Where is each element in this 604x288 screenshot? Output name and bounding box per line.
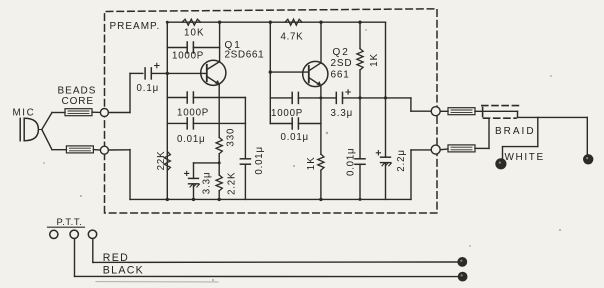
label 3.3u vertical stage1 xyxy=(201,172,212,195)
wire black drop xyxy=(74,239,76,277)
label 2.2u vertical xyxy=(396,149,407,172)
wire bend up to C1 xyxy=(129,73,131,112)
label Q1 xyxy=(225,40,242,51)
plus mark 0.1u xyxy=(155,63,159,67)
svg-text:0.1μ: 0.1μ xyxy=(137,83,160,94)
junction 1K/gnd xyxy=(319,198,322,201)
supply rail top xyxy=(167,21,385,23)
resistor R3 4.7K xyxy=(285,19,302,25)
wire 330/2.2K tap to 3.3u xyxy=(194,162,220,164)
wire red drop xyxy=(92,239,94,263)
node input gnd (on box edge) xyxy=(100,146,108,154)
wire Q2 emitter down xyxy=(320,86,322,155)
microphone MIC symbol xyxy=(20,118,42,140)
label 0.1u xyxy=(137,83,160,94)
wire node to core upper xyxy=(440,110,448,112)
terminal lug red xyxy=(458,258,466,266)
wire core to input gnd node xyxy=(93,149,100,151)
wire cap line1 stage2 xyxy=(270,97,321,99)
wire plug drop right xyxy=(586,117,588,154)
svg-text:3.3μ: 3.3μ xyxy=(201,172,212,195)
wire 2.2K to ground rail xyxy=(218,191,220,200)
label WHITE xyxy=(505,152,545,163)
label 1000P stage1 xyxy=(177,108,209,119)
terminal lug black xyxy=(459,273,467,281)
wire bias vertical stage1 xyxy=(166,22,168,199)
svg-text:2SD: 2SD xyxy=(331,58,353,69)
junction 2.2K/gnd xyxy=(218,198,221,201)
ptt contact 1 xyxy=(50,230,58,238)
label 0.01u stage2 xyxy=(281,132,309,143)
wire Q2 base line xyxy=(270,71,309,73)
ptt contact 2 xyxy=(70,230,78,238)
wire 1K to gnd xyxy=(320,170,322,199)
wire white drop xyxy=(502,147,504,159)
capacitor C4 0.01u stage1 xyxy=(187,118,193,129)
wire 2.2u top lead xyxy=(385,22,387,157)
svg-text:3.3μ: 3.3μ xyxy=(331,108,354,119)
wire core to braid rise xyxy=(475,147,489,149)
wire core to shield entry xyxy=(475,110,518,112)
wire 2.2u bottom lead xyxy=(385,163,387,199)
junction outline/1K xyxy=(358,96,361,99)
svg-text:0.01μ: 0.01μ xyxy=(281,132,309,143)
scan speckles xyxy=(43,29,561,281)
junction 3.3u/gnd xyxy=(192,198,195,201)
plus mark 3.3u stage1 xyxy=(185,171,189,175)
wire 0.01u to gnd xyxy=(359,164,361,199)
junction base2 xyxy=(269,70,272,73)
svg-text:RED: RED xyxy=(103,252,129,264)
svg-text:0.01μ: 0.01μ xyxy=(177,134,205,145)
wire node to core lower xyxy=(440,148,448,151)
label PREAMP. xyxy=(110,21,161,32)
beads core L3 (output hot) xyxy=(448,108,475,115)
capacitor C2 1000P feedback xyxy=(187,42,193,53)
wire mic lower run xyxy=(52,149,66,151)
label 1000P (feedback) xyxy=(172,51,204,62)
capacitor C8 0.01u stage2 xyxy=(292,118,298,129)
junction rail/bias2 xyxy=(269,21,272,24)
transistor Q1 2SD661 xyxy=(201,60,226,85)
label MIC xyxy=(13,108,36,119)
wire 1K to output junction xyxy=(359,70,361,159)
wire 3.3u top lead xyxy=(193,163,195,179)
wire long run to plug xyxy=(518,116,588,118)
transistor Q2 2SD661 xyxy=(303,61,328,86)
wire mic fork lower xyxy=(42,130,52,150)
wire Q2 collector to rail xyxy=(320,22,322,63)
resistor R2 330 xyxy=(216,137,222,153)
junction tap xyxy=(218,161,221,164)
wire feedback line stage1 xyxy=(167,47,219,49)
resistor R6 1K emitter xyxy=(318,154,324,170)
label BRAID xyxy=(495,126,536,137)
label 0.01u vertical stage1 xyxy=(254,146,265,174)
svg-text:WHITE: WHITE xyxy=(505,152,545,163)
wire node to gnd bend xyxy=(109,149,131,151)
svg-text:BLACK: BLACK xyxy=(103,265,144,277)
wire black run xyxy=(75,275,462,277)
wire core to input node xyxy=(92,111,100,113)
capacitor C5 3.3u bypass xyxy=(189,178,200,187)
beads core L1 (upper input) xyxy=(65,109,92,116)
svg-text:4.7K: 4.7K xyxy=(281,31,304,42)
junction outline/2.2u xyxy=(384,96,387,99)
svg-text:1000P: 1000P xyxy=(172,51,204,62)
junction rail/bias corner xyxy=(166,21,169,24)
wire 1K top lead xyxy=(359,22,361,48)
wire cap line2 stage2 xyxy=(270,123,321,125)
capacitor C7 1000P stage2 xyxy=(292,92,298,103)
label 2SD661 xyxy=(225,50,265,61)
label 2.2K vertical xyxy=(226,172,237,195)
svg-text:1K: 1K xyxy=(306,156,317,170)
junction 0.01u/gnd xyxy=(359,198,362,201)
label 0.01u vertical stage2 xyxy=(346,148,357,176)
svg-text:330: 330 xyxy=(226,128,237,147)
resistor R7 1K collector load xyxy=(357,49,363,70)
svg-text:2.2μ: 2.2μ xyxy=(396,149,407,172)
beads core L4 (output gnd) xyxy=(448,145,475,152)
label 3.3u output xyxy=(331,108,354,119)
label 10K xyxy=(184,27,205,38)
wire Q1 collector to rail xyxy=(219,22,221,62)
wire gnd bend down xyxy=(129,150,131,200)
svg-text:1K: 1K xyxy=(369,53,380,67)
wire 3.3u bottom lead xyxy=(193,184,195,199)
wire C1 to Q1 base xyxy=(151,72,207,74)
junction collector/rail xyxy=(218,21,221,24)
cable shield dashed outline xyxy=(482,106,521,119)
label 22K vertical xyxy=(156,150,167,170)
label P.T.T. xyxy=(57,216,83,227)
label 2SD xyxy=(331,58,353,69)
wire output to node xyxy=(411,110,431,112)
wire B vertical lower xyxy=(244,164,246,199)
svg-text:0.01μ: 0.01μ xyxy=(254,146,265,174)
svg-text:2.2K: 2.2K xyxy=(226,172,237,195)
resistor R4 2.2K xyxy=(216,175,222,191)
svg-text:Q2: Q2 xyxy=(333,47,350,58)
capacitor C 0.1u input coupling xyxy=(145,68,151,79)
svg-text:MIC: MIC xyxy=(13,108,36,119)
capacitor C10 0.01u out xyxy=(355,159,365,165)
svg-text:BRAID: BRAID xyxy=(495,126,536,137)
wire bias vertical stage2 xyxy=(269,22,271,123)
label 1K vertical top xyxy=(369,53,380,67)
ground rail (bottom bus) xyxy=(130,198,411,200)
terminal lug right (shield) xyxy=(584,155,593,164)
junction bias/gnd xyxy=(166,198,169,201)
plus mark 3.3u output xyxy=(346,90,350,94)
resistor R5 22K xyxy=(164,152,170,171)
wire shield exit step xyxy=(517,111,519,117)
wire output step down xyxy=(410,98,412,111)
wire braid rise xyxy=(488,119,490,149)
ptt contact 3 xyxy=(88,230,96,238)
wire to C1 xyxy=(130,72,143,74)
svg-text:661: 661 xyxy=(331,69,350,80)
wire cap line1 stage1 xyxy=(167,97,245,99)
svg-text:1000P: 1000P xyxy=(177,108,209,119)
wire output line xyxy=(321,97,411,99)
preamp enclosure dashed box xyxy=(105,9,438,213)
label 1K vertical stage2 xyxy=(306,156,317,170)
node output hot xyxy=(431,107,440,116)
node input hot (on box edge) xyxy=(100,109,108,117)
terminal lug white xyxy=(496,159,506,169)
plus mark 2.2u xyxy=(376,151,380,155)
wire white branch left xyxy=(503,146,538,148)
label 1000P stage2 xyxy=(271,108,303,119)
label 661 xyxy=(331,69,350,80)
capacitor C11 2.2u xyxy=(381,157,392,166)
junction collector2/rail xyxy=(319,21,322,24)
ptt bracket line xyxy=(48,226,85,228)
svg-text:P.T.T.: P.T.T. xyxy=(57,216,83,227)
wire white branch down xyxy=(537,117,539,146)
label 0.01u stage1 xyxy=(177,134,205,145)
wire red run xyxy=(93,261,460,263)
wire gnd rail up to out node xyxy=(411,150,432,200)
beads core L2 (lower input) xyxy=(66,146,93,153)
capacitor C6 0.01u vertical xyxy=(240,159,250,164)
scan smudge under BLACK wire xyxy=(96,281,218,283)
junction 1K-top/rail xyxy=(358,21,361,24)
label RED xyxy=(103,252,129,264)
label 4.7K xyxy=(281,31,304,42)
label CORE xyxy=(62,96,95,107)
svg-text:0.01μ: 0.01μ xyxy=(346,148,357,176)
label 330 vertical xyxy=(226,128,237,147)
node output gnd xyxy=(431,145,440,154)
label BEADS xyxy=(58,86,97,97)
wire cap line2 stage1 xyxy=(167,122,245,124)
capacitor C9 3.3u output xyxy=(336,92,342,103)
capacitor C3 1000P stage1 xyxy=(187,92,193,103)
wire node to bend xyxy=(109,112,131,114)
svg-text:22K: 22K xyxy=(156,150,167,170)
junction e2 line1 xyxy=(319,96,322,99)
svg-text:CORE: CORE xyxy=(62,96,95,107)
svg-text:10K: 10K xyxy=(184,27,205,38)
wire Q1 emitter down xyxy=(218,84,220,137)
label BLACK xyxy=(103,265,144,277)
wire mic fork upper xyxy=(42,113,52,130)
resistor R1 10K xyxy=(182,19,201,25)
wire 330 to 2.2K xyxy=(218,154,220,175)
label Q2 xyxy=(333,47,350,58)
junction base line / bias rail xyxy=(166,72,169,75)
svg-text:2SD661: 2SD661 xyxy=(225,50,265,61)
wire B vertical upper xyxy=(244,98,246,159)
wire mic upper run xyxy=(52,112,65,114)
svg-text:PREAMP.: PREAMP. xyxy=(110,21,161,32)
